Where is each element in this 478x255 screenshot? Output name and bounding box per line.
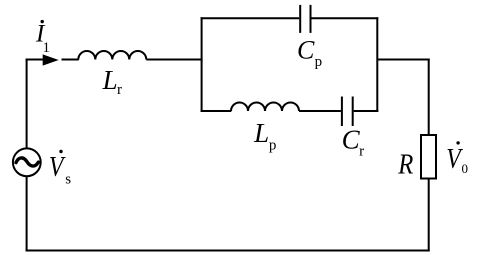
wire: box top branch, right of Cp <box>312 17 379 19</box>
svg-text:p: p <box>315 54 323 70</box>
svg-text:V: V <box>49 150 66 183</box>
wire: bottom horizontal <box>26 250 430 252</box>
capacitor Cp right plate <box>310 5 312 33</box>
resistor R body <box>421 135 436 179</box>
wire: left vertical, source bottom to bottom-left corner <box>26 176 28 251</box>
svg-text:r: r <box>359 144 364 160</box>
AC source Vs circle <box>13 148 41 176</box>
wire: parallel box left vertical <box>201 17 203 112</box>
label Vs dot <box>59 150 62 153</box>
svg-text:L: L <box>102 65 118 95</box>
capacitor Cp left plate <box>299 5 301 33</box>
svg-text:p: p <box>269 137 277 153</box>
wire: box top branch, left of Cp <box>201 17 300 19</box>
wire: top horizontal, corner to inductor Lr <box>26 59 44 61</box>
label V0 dot <box>456 141 459 144</box>
wire: box bottom branch, right of Cr <box>354 110 379 112</box>
wire: box bottom branch, Lp to Cr <box>299 110 341 112</box>
svg-text:s: s <box>65 172 71 188</box>
svg-text:C: C <box>297 35 315 64</box>
inductor Lp <box>231 103 299 112</box>
capacitor Cr right plate <box>352 97 354 127</box>
svg-text:0: 0 <box>462 161 469 176</box>
svg-text:C: C <box>342 125 361 155</box>
svg-text:L: L <box>253 118 269 148</box>
AC source sine wave <box>16 158 38 166</box>
wire: right vertical, top wire down to resistor top <box>428 59 430 137</box>
wire: output horizontal from box to right branch <box>377 59 429 61</box>
svg-text:1: 1 <box>43 40 51 56</box>
inductor Lr <box>78 51 146 60</box>
svg-text:r: r <box>117 82 122 98</box>
wire: parallel box right vertical <box>376 17 378 112</box>
wire: left vertical, top-left corner down to source top <box>26 59 28 149</box>
current arrow I1 <box>43 54 59 65</box>
capacitor Cr left plate <box>341 97 343 127</box>
wire: box bottom branch, left of Lp <box>201 110 232 112</box>
wire: right vertical, bottom wire up to resistor bottom <box>428 178 430 252</box>
label I1 dot <box>41 20 44 23</box>
wire: top horizontal, arrow tip to Lr <box>62 59 79 61</box>
svg-text:R: R <box>397 147 413 179</box>
wire: top horizontal, Lr to parallel box <box>146 59 202 61</box>
